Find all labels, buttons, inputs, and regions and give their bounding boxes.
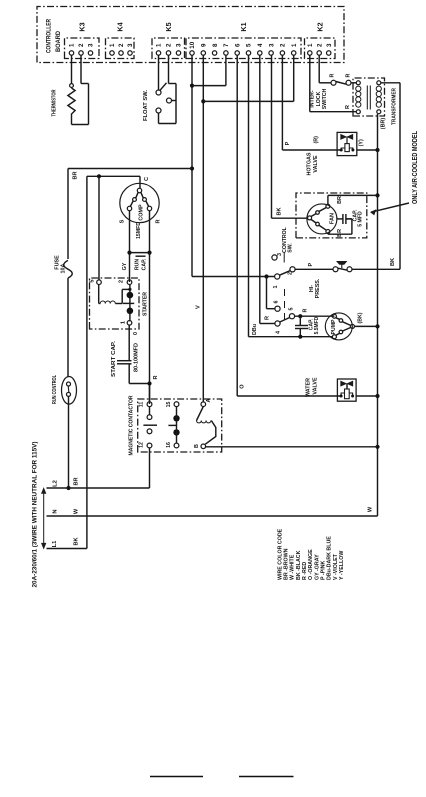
svg-text:R: R: [345, 105, 351, 109]
svg-text:THERMISTOR: THERMISTOR: [52, 89, 58, 116]
svg-text:Y -YELLOW: Y -YELLOW: [339, 551, 345, 580]
svg-text:WIRE COLOR CODE: WIRE COLOR CODE: [277, 528, 283, 580]
svg-text:FAN: FAN: [330, 213, 336, 224]
svg-text:ONLY AIR-COOLED MODEL: ONLY AIR-COOLED MODEL: [412, 130, 419, 204]
svg-text:HOTGAS: HOTGAS: [306, 152, 312, 175]
svg-text:K1: K1: [239, 22, 248, 31]
svg-text:TRANSFORMER: TRANSFORMER: [391, 88, 397, 125]
svg-text:9: 9: [201, 43, 208, 47]
svg-text:2: 2: [119, 280, 125, 283]
svg-text:2: 2: [287, 272, 293, 275]
svg-text:6: 6: [234, 43, 241, 47]
svg-text:B: B: [194, 444, 200, 448]
svg-text:BR -BROWN: BR -BROWN: [284, 548, 290, 580]
svg-text:SW.: SW.: [287, 243, 293, 253]
svg-text:R: R: [329, 73, 335, 77]
svg-text:P -PINK: P -PINK: [320, 560, 326, 580]
svg-text:15: 15: [166, 402, 172, 408]
svg-text:3: 3: [127, 43, 134, 47]
svg-text:(Y): (Y): [359, 139, 365, 146]
svg-text:C: C: [144, 177, 150, 181]
svg-text:BR: BR: [74, 477, 80, 485]
svg-text:A: A: [206, 398, 212, 402]
svg-text:V: V: [196, 305, 202, 309]
svg-text:GY -GRAY: GY -GRAY: [314, 554, 320, 580]
svg-text:COMP: COMP: [138, 204, 144, 221]
svg-text:BK: BK: [74, 537, 80, 545]
svg-text:5 MFD: 5 MFD: [358, 211, 364, 227]
svg-text:RUN CONTROL: RUN CONTROL: [52, 374, 58, 404]
svg-text:L2: L2: [53, 480, 59, 487]
svg-text:STARTER: STARTER: [142, 292, 148, 316]
svg-text:2: 2: [316, 43, 323, 47]
svg-text:5: 5: [288, 308, 294, 311]
svg-text:SWITCH: SWITCH: [322, 89, 328, 110]
svg-text:(BR): (BR): [381, 118, 387, 130]
svg-text:3: 3: [176, 43, 183, 47]
svg-text:80-100MFD: 80-100MFD: [133, 343, 139, 372]
svg-text:10: 10: [189, 41, 196, 48]
svg-text:O: O: [240, 384, 246, 389]
svg-text:12: 12: [139, 442, 145, 448]
svg-text:WATER: WATER: [306, 378, 312, 397]
svg-text:3: 3: [326, 43, 333, 47]
svg-text:R: R: [265, 316, 271, 320]
svg-text:DBu-DARK BLUE: DBu-DARK BLUE: [327, 536, 333, 580]
svg-text:PRESS.: PRESS.: [315, 278, 321, 298]
svg-text:7: 7: [223, 43, 230, 47]
svg-text:V -VIOLET: V -VIOLET: [333, 553, 339, 580]
svg-text:1: 1: [109, 43, 116, 47]
svg-text:BOARD: BOARD: [55, 31, 62, 52]
svg-text:15MFD: 15MFD: [136, 222, 142, 239]
svg-text:FLOAT SW.: FLOAT SW.: [143, 90, 149, 121]
svg-text:R: R: [156, 219, 162, 223]
svg-text:8: 8: [212, 43, 219, 47]
svg-text:BR: BR: [337, 196, 343, 204]
svg-text:START CAP.: START CAP.: [111, 341, 117, 377]
svg-text:PUMP: PUMP: [331, 319, 337, 335]
svg-text:L1: L1: [52, 540, 58, 548]
svg-text:VALVE: VALVE: [313, 155, 319, 173]
svg-text:W: W: [368, 506, 374, 512]
svg-text:1: 1: [69, 43, 76, 47]
svg-text:BR: BR: [73, 171, 79, 179]
svg-text:1: 1: [291, 43, 298, 47]
svg-text:2: 2: [280, 43, 287, 47]
svg-text:3: 3: [88, 43, 95, 47]
svg-text:11: 11: [139, 402, 145, 408]
svg-text:CONTROLLER: CONTROLLER: [45, 19, 52, 53]
svg-text:(BK): (BK): [357, 312, 363, 323]
svg-text:5: 5: [90, 279, 96, 282]
svg-text:RUN: RUN: [134, 259, 140, 270]
svg-text:BK: BK: [390, 258, 396, 266]
svg-text:5.5MFD: 5.5MFD: [314, 316, 320, 334]
svg-text:P: P: [285, 141, 291, 145]
svg-text:10A: 10A: [60, 263, 66, 273]
svg-text:INTER-: INTER-: [310, 90, 316, 108]
svg-text:K5: K5: [164, 22, 173, 31]
svg-text:W -WHITE: W -WHITE: [290, 554, 296, 580]
svg-text:R: R: [302, 308, 308, 312]
svg-text:(R): (R): [313, 136, 319, 144]
svg-text:R -RED: R -RED: [302, 562, 308, 580]
svg-text:20A-230/60/1 (3WIRE WITH NEUTR: 20A-230/60/1 (3WIRE WITH NEUTRAL FOR 115…: [31, 442, 38, 588]
svg-text:DBu: DBu: [252, 324, 258, 335]
svg-text:2: 2: [166, 43, 173, 47]
svg-text:N: N: [53, 509, 59, 513]
svg-text:2: 2: [78, 43, 85, 47]
svg-text:BK: BK: [277, 207, 283, 215]
svg-text:BK -BLACK: BK -BLACK: [296, 550, 302, 580]
svg-text:GY: GY: [122, 262, 128, 270]
svg-text:R: R: [345, 73, 351, 77]
svg-text:1: 1: [307, 43, 314, 47]
svg-text:1: 1: [156, 43, 163, 47]
svg-text:R: R: [153, 375, 159, 379]
svg-text:K2: K2: [315, 22, 324, 31]
svg-text:VALVE: VALVE: [312, 377, 318, 395]
svg-text:K4: K4: [115, 22, 124, 31]
svg-text:BR: BR: [337, 229, 343, 237]
svg-text:4: 4: [275, 331, 281, 334]
svg-text:4: 4: [257, 43, 264, 47]
svg-text:16: 16: [166, 442, 172, 448]
svg-text:W: W: [74, 508, 80, 514]
svg-text:O -ORANGE: O -ORANGE: [308, 549, 314, 580]
svg-text:5: 5: [246, 43, 253, 47]
svg-text:3: 3: [268, 43, 275, 47]
svg-text:1: 1: [121, 321, 127, 324]
svg-text:0: 0: [133, 332, 139, 335]
svg-text:CAP.: CAP.: [141, 258, 147, 270]
svg-text:2: 2: [118, 43, 125, 47]
svg-text:6: 6: [273, 301, 279, 304]
svg-text:1: 1: [273, 286, 279, 289]
svg-text:MAGNETIC CONTACTOR: MAGNETIC CONTACTOR: [128, 395, 134, 455]
svg-text:K3: K3: [77, 22, 86, 31]
svg-text:P: P: [308, 262, 314, 266]
svg-text:S: S: [120, 219, 126, 223]
svg-text:LOCK: LOCK: [316, 91, 322, 106]
